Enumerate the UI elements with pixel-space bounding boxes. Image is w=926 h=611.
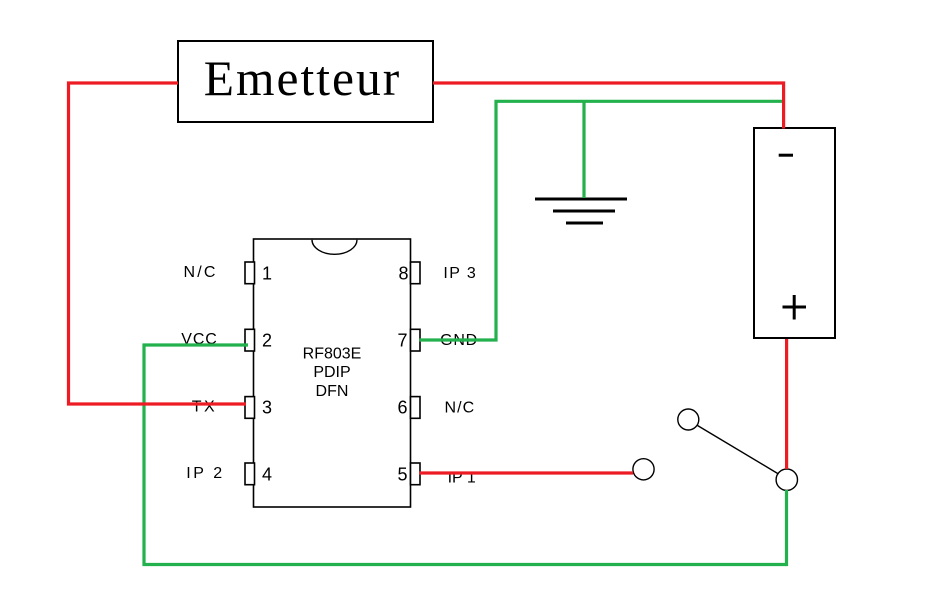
svg-text:3: 3 <box>262 398 272 418</box>
svg-text:RF803E: RF803E <box>303 346 362 363</box>
svg-text:4: 4 <box>262 465 272 485</box>
svg-text:6: 6 <box>397 398 407 418</box>
svg-text:1: 1 <box>262 264 272 284</box>
svg-text:N/C: N/C <box>184 264 218 281</box>
svg-text:DFN: DFN <box>316 383 349 400</box>
svg-text:7: 7 <box>397 331 407 351</box>
svg-text:8: 8 <box>398 264 408 284</box>
svg-text:2: 2 <box>262 331 272 351</box>
svg-text:IP 3: IP 3 <box>443 265 477 282</box>
svg-text:N/C: N/C <box>444 400 475 417</box>
svg-text:Emetteur: Emetteur <box>204 51 401 106</box>
svg-text:PDIP: PDIP <box>313 364 350 381</box>
svg-text:IP 2: IP 2 <box>186 465 225 482</box>
svg-text:5: 5 <box>397 465 407 485</box>
svg-text:TX: TX <box>192 399 217 416</box>
